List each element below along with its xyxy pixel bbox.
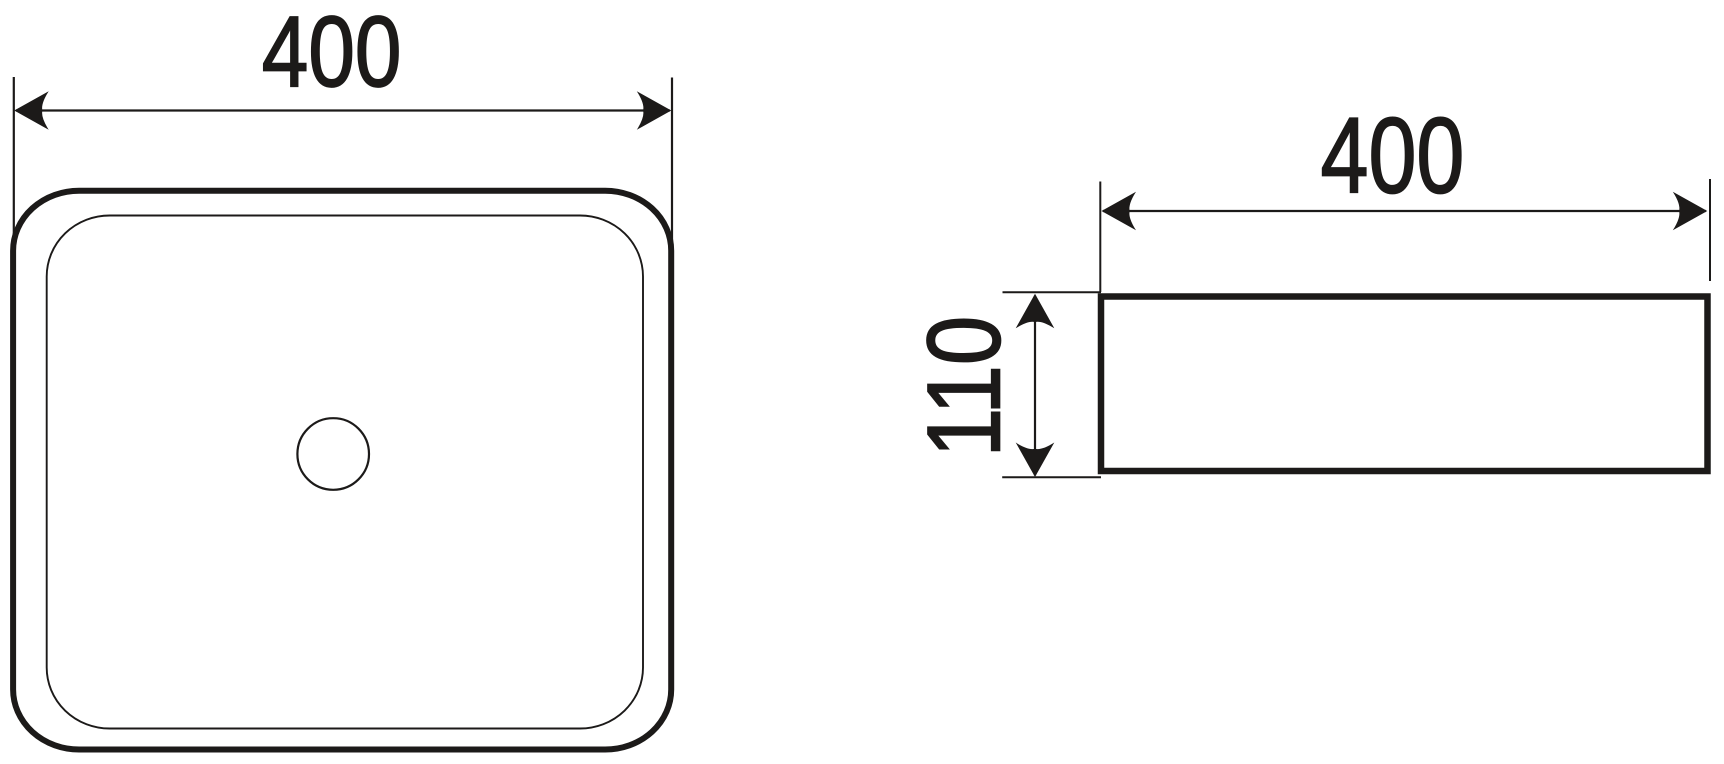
svg-text:110: 110 xyxy=(907,316,1022,458)
svg-text:400: 400 xyxy=(262,0,402,108)
svg-text:400: 400 xyxy=(1321,95,1465,215)
